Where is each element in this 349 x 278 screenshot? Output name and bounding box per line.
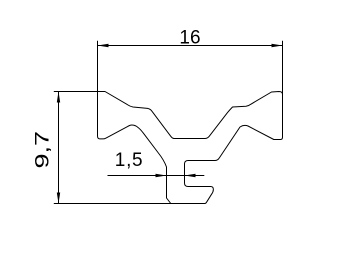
dim 1,5 arrow left — [156, 174, 167, 177]
dim 16 arrow right — [272, 44, 283, 47]
svg-text:16: 16 — [179, 27, 200, 48]
dim 1,5 dimension line — [108, 175, 205, 177]
dim 16 extension line left — [97, 41, 99, 92]
dim 16 extension line right — [282, 41, 284, 95]
dim 9,7 arrow bottom — [57, 193, 60, 204]
dim 1,5 arrow right — [185, 174, 196, 177]
dim 9,7 arrow top — [57, 92, 60, 103]
dim 9,7 dimension line — [58, 92, 60, 204]
svg-text:9,7: 9,7 — [31, 131, 52, 169]
dim 9,7 extension line bottom — [54, 203, 171, 205]
dim 9,7 extension line top — [54, 91, 98, 93]
svg-text:1,5: 1,5 — [115, 150, 144, 171]
dim 16 arrow left — [98, 44, 109, 47]
profile outline — [98, 92, 283, 204]
dim 16 dimension line — [98, 45, 283, 47]
